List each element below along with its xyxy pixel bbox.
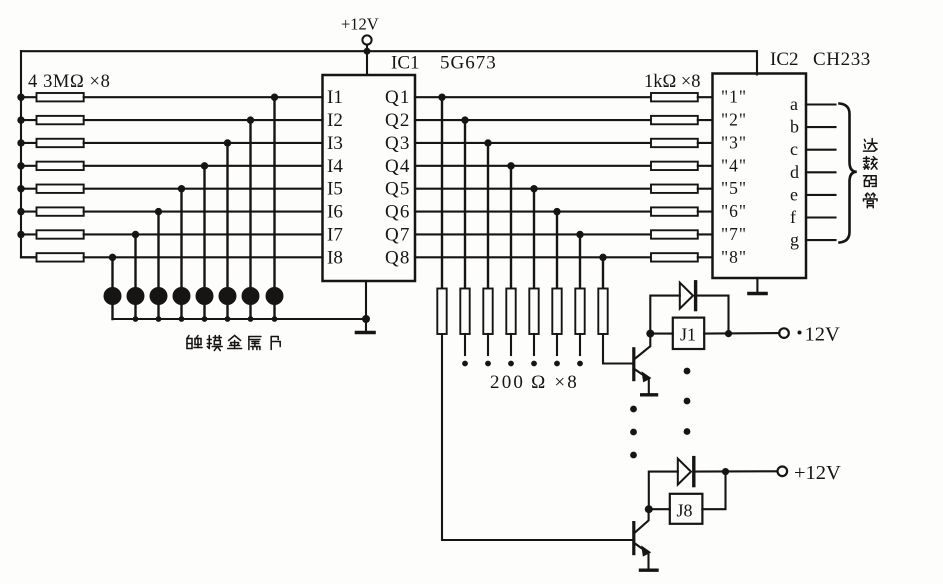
node ellipsis right column (stages 2..7) [684,368,691,435]
svg-text:"6": "6" [721,201,747,221]
pin I1 label [327,87,343,108]
svg-text:Q6: Q6 [385,202,411,223]
wire touch branch I5 [180,189,182,319]
resistor 200ohm #7 [575,289,584,335]
touch pad 5 [196,287,214,305]
wire 1k #8 to IC2 [698,256,713,258]
junction Q7 dropline [576,231,583,238]
junction common ground node [362,315,370,323]
wire touch branch I1 [273,97,275,319]
wire Q5 dropline [533,189,535,289]
wire segment output c [806,149,836,151]
svg-text:Q8: Q8 [385,247,411,268]
wire segment output g [806,239,836,241]
junction J1 output node [725,330,732,337]
wire 1k #6 to IC2 [698,211,713,213]
pin Q8 label [385,247,411,268]
pin b label [790,117,799,137]
wire segment output a [806,103,836,105]
junction touch bus x158.5 [156,316,162,322]
junction touch branch I8 on row [109,254,116,261]
junction touch branch I2 on row [247,116,254,123]
wire collector to relay J8 [649,508,670,510]
pin "3" label [721,133,747,153]
resistor 1k #4 [651,162,698,170]
junction stage1 collector node [646,330,654,338]
junction Q2 dropline [461,116,468,123]
terminal +12V relay8 [778,462,842,484]
resistor 4.3M #4 (input I4) [21,162,84,170]
pin "8" label [721,247,747,267]
wire IC1 ground pin [365,281,367,319]
resistor 200ohm #5 [529,289,538,335]
pin c label [790,139,798,159]
svg-text:b: b [790,117,799,137]
svg-text:200 Ω ×8: 200 Ω ×8 [490,372,579,393]
svg-text:"3": "3" [721,133,747,153]
junction touch branch I1 on row [271,94,278,101]
junction touch branch I3 on row [224,139,231,146]
wire touch branch I3 [226,143,228,319]
svg-text:4 3MΩ ×8: 4 3MΩ ×8 [28,72,110,92]
label 1k ohm x8 value [644,72,701,92]
wire input row I6 [84,211,323,213]
resistor 200ohm #6 [552,289,561,335]
svg-text:I2: I2 [327,110,343,131]
svg-text:"4": "4" [721,155,747,175]
svg-text:Q4: Q4 [385,156,411,177]
wire touch branch I8 [111,257,113,319]
wire Q1 dropline [441,97,443,288]
pin Q4 label [385,156,411,177]
wire 1k #1 to IC2 [698,96,713,98]
ground stage8 emitter [641,569,658,572]
op-amp IC1 5G673 body [323,75,416,281]
junction touch bus x204.5 [202,316,208,322]
junction bus row 5 [17,185,24,192]
wire touch branch I2 [249,120,251,319]
wire input row I8 [84,256,323,258]
wire Q3 dropline [487,143,489,289]
node ellipsis left column (stages 2..7) [630,406,637,459]
wire +12V top rail [21,51,757,74]
label touch metal pads (Chinese) [187,336,280,351]
touch pad 1 [104,287,122,305]
wire 200ohm #2 stub + continuation dot [462,334,468,366]
pin I5 label [327,179,343,200]
label IC2 CH233 [770,49,871,70]
resistor 200ohm #1 [437,289,446,335]
svg-text:Q7: Q7 [385,225,411,246]
svg-text:e: e [790,184,798,204]
touch pad 3 [150,287,168,305]
svg-text:12V: 12V [805,324,841,346]
svg-text:I1: I1 [327,87,343,108]
wire 1k #2 to IC2 [698,119,713,121]
junction Q5 dropline [530,185,537,192]
svg-text:c: c [790,139,798,159]
pin I8 label [327,247,343,268]
wire touch branch I6 [157,212,159,319]
diode D1 (across relay J1) [680,282,696,310]
wire output row Q6 [415,211,651,213]
wire segment output d [806,171,836,173]
wire drive line to transistor Q8 stage [442,334,633,540]
svg-text:I5: I5 [327,179,343,200]
svg-text:1kΩ ×8: 1kΩ ×8 [644,72,701,92]
pin I4 label [327,156,343,177]
wire Q2 dropline [464,120,466,288]
resistor 1k #1 [651,93,698,101]
resistor 4.3M #7 (input I7) [21,230,84,238]
label 200 ohm x8 value [490,372,579,393]
pin Q1 label [385,87,411,108]
wire input row I1 [84,96,323,98]
pin d label [790,162,799,182]
wire output row Q3 [415,142,651,144]
label IC1 5G673 [391,53,497,74]
wire 200ohm #6 stub + continuation dot [554,334,560,366]
junction bus row 6 [17,208,24,215]
touch pad 4 [173,287,191,305]
wire output row Q5 [415,188,651,190]
pin e label [790,184,798,204]
wire output row Q7 [415,233,651,235]
svg-text:5G673: 5G673 [440,53,497,74]
resistor 4.3M #1 (input I1) [21,93,84,101]
wire Q8 dropline [602,257,604,288]
junction bus row 4 [17,162,24,169]
touch pad 6 [219,287,237,305]
svg-text:"2": "2" [721,110,747,130]
resistor 1k #8 [651,253,698,261]
junction touch branch I6 on row [155,208,162,215]
svg-text:f: f [790,207,796,227]
wire relay J1 to +12V [704,332,779,335]
wire touch branch I7 [134,234,136,319]
resistor 200ohm #2 [460,289,469,335]
pin I6 label [327,202,343,223]
pin "4" label [721,155,747,175]
svg-text:Q3: Q3 [385,133,411,154]
junction touch bus x181.5 [179,316,185,322]
resistor 4.3M #2 (input I2) [21,116,84,124]
junction bus row 3 [17,139,24,146]
junction touch branch I5 on row [178,185,185,192]
svg-text:IC1: IC1 [391,53,420,74]
wire output row Q4 [415,165,651,167]
junction bus row 2 [17,116,24,123]
junction stage8 collector node [645,505,653,513]
junction touch bus x135.5 [133,316,139,322]
svg-text:CH233: CH233 [813,49,871,70]
brace to digit display [840,104,857,243]
junction touch bus x274.5 [272,316,278,322]
pin Q6 label [385,202,411,223]
wire input row I5 [84,188,323,190]
svg-text:I3: I3 [327,133,343,154]
wire touch pad common bus [113,318,367,320]
pin "7" label [721,224,747,244]
wire output row Q8 [415,256,651,258]
junction touch branch I4 on row [201,162,208,169]
junction Q4 dropline [507,162,514,169]
resistor 4.3M #6 (input I6) [21,207,84,215]
junction D8 cathode node [722,468,729,475]
wire diode D8 to +12V [694,470,778,472]
svg-text:d: d [790,162,799,182]
svg-text:I4: I4 [327,156,343,177]
wire output row Q2 [415,119,651,121]
wire 1k #4 to IC2 [698,165,713,167]
resistor 1k #5 [651,185,698,193]
wire 1k #3 to IC2 [698,142,713,144]
svg-text:a: a [790,94,798,114]
svg-text:Q5: Q5 [385,179,411,200]
svg-text:I8: I8 [327,247,343,268]
resistor 1k #2 [651,116,698,124]
junction Q1 dropline [438,94,445,101]
wire input row I4 [84,165,323,167]
transistor stage8 NPN [634,509,651,569]
junction touch branch I7 on row [132,231,139,238]
pin "5" label [721,178,747,198]
resistor 1k #3 [651,139,698,147]
relay J1 [673,318,704,349]
wire 1k #5 to IC2 [698,188,713,190]
pin Q5 label [385,179,411,200]
transistor stage1 NPN [634,334,652,394]
svg-text:+12V: +12V [794,462,841,484]
wire 200ohm #7 stub + continuation dot [577,334,583,366]
wire collector to relay J1 [650,333,673,335]
pin Q3 label [385,133,411,154]
terminal +12V supply [341,15,379,52]
svg-text:g: g [790,230,799,250]
wire Q7 dropline [579,234,581,288]
svg-text:"1": "1" [721,87,747,107]
ground IC2 [749,292,766,296]
touch pad 7 [242,287,260,305]
svg-text:IC2: IC2 [770,49,799,70]
wire 200ohm #3 stub + continuation dot [485,334,491,366]
wire 1k #7 to IC2 [698,233,713,235]
svg-text:J1: J1 [680,325,696,345]
svg-text:I7: I7 [327,225,343,246]
pin "6" label [721,201,747,221]
wire touch branch I4 [203,166,205,319]
resistor 200ohm #3 [483,289,492,335]
pin Q7 label [385,225,411,246]
wire diode D1 cathode down [696,296,729,334]
svg-text:J8: J8 [677,501,693,521]
IC U2 CH233 body [713,74,807,279]
ground stage1 emitter [642,393,657,396]
pin I7 label [327,225,343,246]
wire 200ohm #4 stub + continuation dot [508,334,514,366]
svg-text:+12V: +12V [341,15,379,34]
wire left input bus [21,51,37,257]
resistor 1k #7 [651,230,698,238]
svg-text:"5": "5" [721,178,747,198]
pin Q2 label [385,110,411,131]
wire 200ohm #5 stub + continuation dot [531,334,537,366]
wire IC2 ground pin [756,278,758,293]
resistor 4.3M #8 (input I8) [21,253,84,261]
junction Q3 dropline [484,139,491,146]
pin f label [790,207,796,227]
wire collector to diode D1 [650,296,680,334]
ground main [357,319,375,333]
resistor 1k #6 [651,207,698,215]
svg-text:Q1: Q1 [385,87,411,108]
svg-text:I6: I6 [327,202,343,223]
junction +12V rail to IC1 [364,48,371,75]
wire drive line to transistor Q1 stage [603,334,633,364]
junction bus row 1 [17,94,24,101]
touch pad 2 [127,287,145,305]
wire input row I3 [84,142,323,144]
pin a label [790,94,798,114]
pin g label [790,230,799,250]
svg-text:"7": "7" [721,224,747,244]
terminal +12V relay1 [779,324,840,346]
wire Q6 dropline [556,212,558,289]
resistor 200ohm #8 [598,289,607,335]
pin "2" label [721,110,747,130]
resistor 200ohm #4 [506,289,515,335]
wire segment output b [806,126,836,128]
label to digital display tube (Chinese, vertical) [864,139,878,208]
pin I3 label [327,133,343,154]
junction Q6 dropline [553,208,560,215]
wire output row Q1 [415,96,651,98]
diode D8 (across relay J8) [678,458,694,486]
pin "1" label [721,87,747,107]
wire Q4 dropline [510,166,512,289]
wire input row I2 [84,119,323,121]
svg-text:Q2: Q2 [385,110,411,131]
touch pad 8 [266,287,284,305]
wire segment output f [806,216,836,218]
resistor 4.3M #3 (input I3) [21,139,84,147]
wire input row I7 [84,233,323,235]
junction bus row 7 [17,231,24,238]
resistor 4.3M #5 (input I5) [21,185,84,193]
wire collector to diode D8 [649,472,678,510]
label 4.3M ohm x8 value [28,72,110,92]
wire segment output e [806,194,836,196]
junction Q8 dropline [599,254,606,261]
junction touch bus x250.5 [248,316,254,322]
wire relay J8 up to diode node [702,472,725,510]
svg-text:"8": "8" [721,247,747,267]
pin I2 label [327,110,343,131]
junction touch bus x227.5 [225,316,231,322]
relay J8 [670,494,703,524]
